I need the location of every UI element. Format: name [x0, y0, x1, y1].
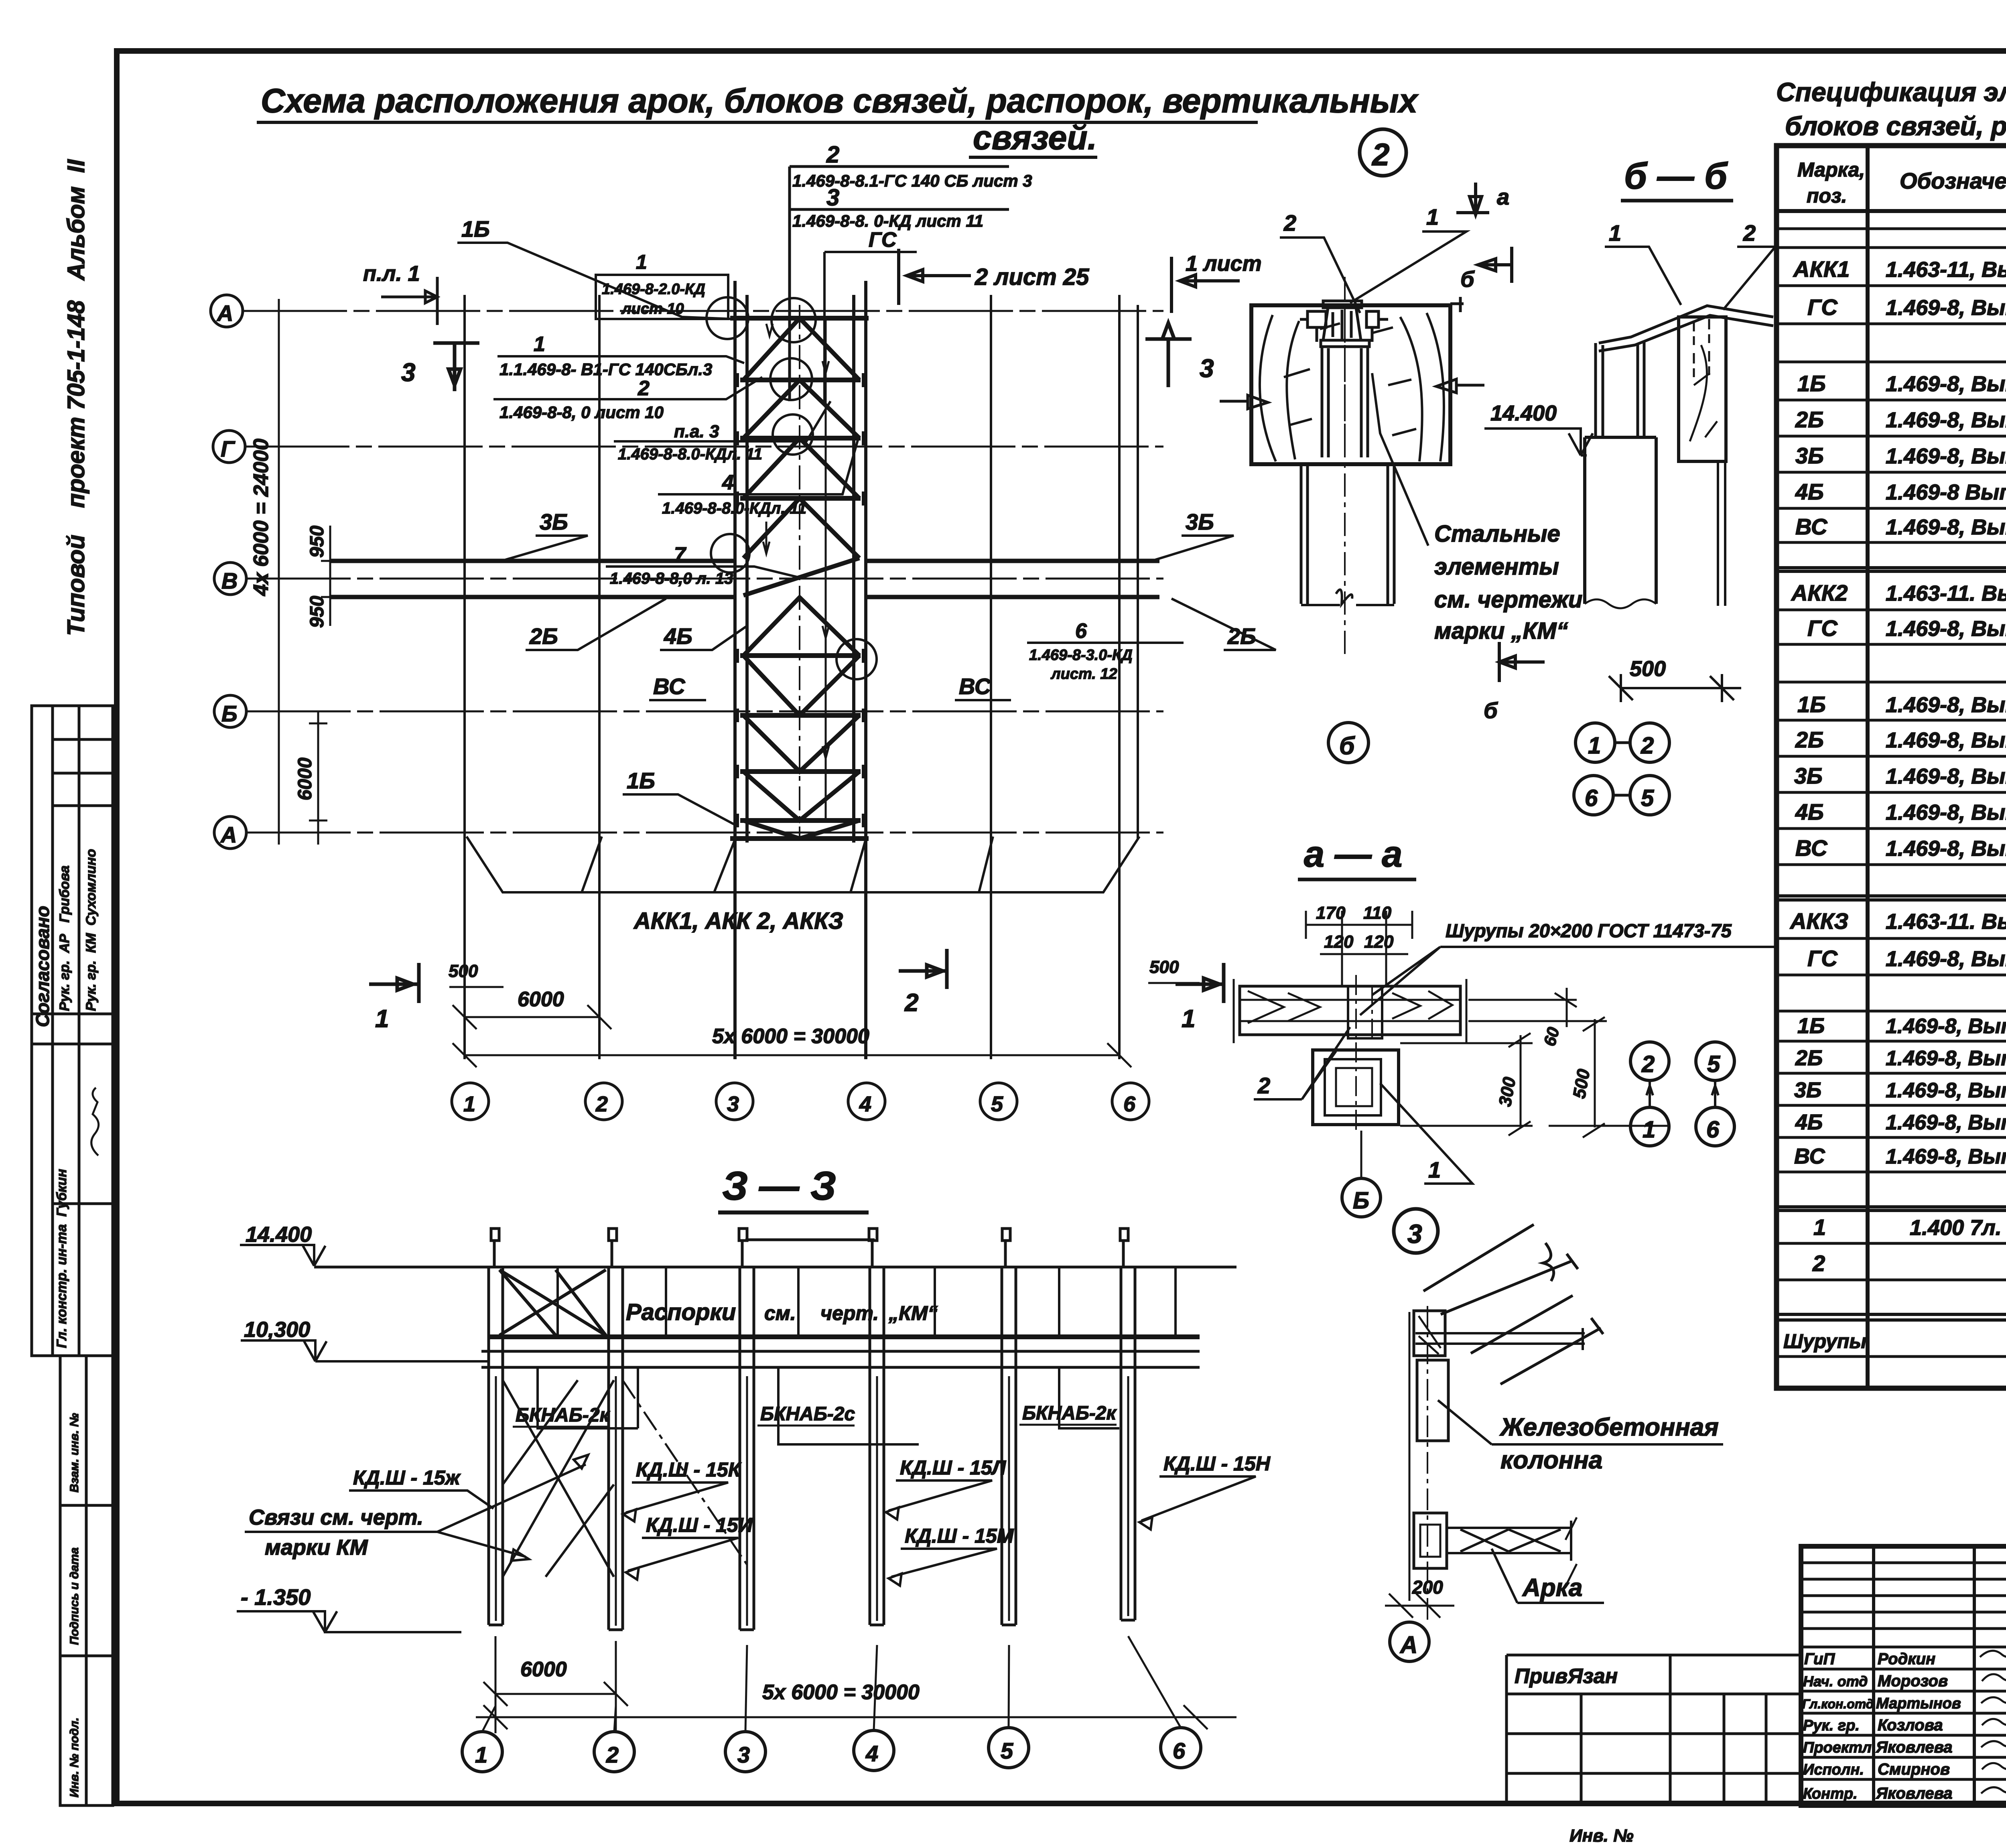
svg-text:КД.Ш - 15К: КД.Ш - 15К: [636, 1458, 742, 1481]
svg-text:1: 1: [375, 1005, 389, 1033]
svg-text:6: 6: [1123, 1092, 1136, 1116]
svg-text:1: 1: [1609, 220, 1621, 246]
svg-text:б: б: [1484, 698, 1498, 723]
svg-text:2: 2: [606, 1742, 619, 1767]
svg-text:см.: см.: [764, 1302, 796, 1324]
svg-text:Гл.кон.отд: Гл.кон.отд: [1802, 1697, 1874, 1711]
б-б plank lower continuation: [1718, 461, 1725, 606]
svg-text:п.а. 3: п.а. 3: [674, 422, 719, 441]
svg-text:ВС: ВС: [653, 674, 686, 699]
svg-text:ВС: ВС: [1794, 1144, 1825, 1168]
svg-text:Морозов: Морозов: [1878, 1672, 1948, 1690]
top posts above roof: [491, 1229, 1128, 1267]
svg-text:1.469-8-8. 0-КД лист 11: 1.469-8-8. 0-КД лист 11: [792, 211, 983, 230]
svg-text:Родкин: Родкин: [1878, 1650, 1935, 1668]
column body: [1417, 1360, 1448, 1441]
section marker 1 bottom left: [369, 963, 419, 1003]
svg-text:120: 120: [1364, 932, 1394, 952]
svg-text:б: б: [1339, 732, 1355, 760]
svg-text:3: 3: [1200, 354, 1214, 383]
svg-text:10,300: 10,300: [244, 1318, 310, 1342]
svg-text:лист. 12: лист. 12: [1050, 666, 1117, 682]
circle А bottom: [1390, 1622, 1429, 1661]
wood grain: [1260, 313, 1444, 461]
table column lines: [1868, 146, 2006, 1388]
svg-text:Спецификация элементов к сх: Спецификация элементов к схеме расположе…: [1776, 77, 2006, 107]
svg-text:3Б: 3Б: [540, 509, 568, 534]
svg-text:1: 1: [463, 1092, 475, 1116]
roof band lines: [489, 1334, 1200, 1339]
б-б top strut: [1599, 306, 1773, 351]
svg-text:1.469-8, Вып. 1: 1.469-8, Вып. 1: [1886, 728, 2006, 752]
axis line А top: [243, 310, 1163, 312]
svg-text:1 лист: 1 лист: [1186, 252, 1262, 276]
svg-text:1.469-8, Вып. 1: 1.469-8, Вып. 1: [1886, 617, 2006, 641]
svg-text:4: 4: [859, 1092, 871, 1116]
truss diagonals lower (inverted): [743, 656, 859, 839]
svg-text:1Б: 1Б: [461, 216, 490, 242]
column assembly top block: [1414, 1311, 1445, 1356]
svg-text:3Б: 3Б: [1794, 1078, 1821, 1102]
svg-text:2: 2: [1371, 137, 1389, 172]
svg-text:Яковлева: Яковлева: [1876, 1785, 1953, 1802]
svg-text:марки „КМ“: марки „КМ“: [1434, 618, 1568, 644]
svg-text:марки КМ: марки КМ: [265, 1535, 368, 1560]
svg-text:7: 7: [674, 543, 686, 567]
left soglasovano table: [32, 706, 113, 1356]
svg-text:6000: 6000: [520, 1658, 567, 1681]
svg-text:1.469-8, Вып. 1: 1.469-8, Вып. 1: [1886, 515, 2006, 539]
svg-text:Стальные: Стальные: [1434, 521, 1560, 547]
lower block: [1414, 1513, 1447, 1568]
column line 3 (truss left chord, doubled): [735, 281, 747, 1059]
svg-text:Гл. констр. ин-та Губкин: Гл. констр. ин-та Губкин: [54, 1169, 69, 1348]
arch span outline bottom: [467, 837, 1139, 892]
svg-text:Яковлева: Яковлева: [1876, 1738, 1953, 1756]
а-а beam: [1240, 986, 1460, 1035]
svg-text:4: 4: [865, 1741, 878, 1766]
vertical overall dim line 4x6000=24000: [271, 299, 287, 845]
svg-text:2: 2: [595, 1092, 608, 1116]
svg-text:А: А: [220, 822, 237, 847]
svg-text:поз.: поз.: [1807, 185, 1847, 207]
svg-text:Типовой проект 705-1-148: Типовой проект 705-1-148 Альбом II: [63, 159, 89, 636]
svg-text:колонна: колонна: [1500, 1446, 1602, 1474]
svg-text:3: 3: [737, 1742, 750, 1767]
svg-text:2: 2: [638, 377, 650, 400]
signature table verticals: [1874, 1546, 2006, 1805]
svg-text:3Б: 3Б: [1186, 509, 1214, 534]
section marker а (top): [1456, 183, 1489, 215]
svg-text:3: 3: [401, 358, 416, 387]
middle level line: [315, 1360, 489, 1363]
column line 1: [463, 295, 466, 1059]
svg-text:„КМ“: „КМ“: [888, 1302, 938, 1324]
svg-text:А: А: [216, 301, 233, 326]
б-б column upper: [1596, 341, 1644, 437]
svg-text:950: 950: [307, 596, 328, 628]
column line 6: [1119, 295, 1138, 1059]
svg-text:1.469-8, Вып. 1: 1.469-8, Вып. 1: [1886, 837, 2006, 861]
svg-text:лист 10: лист 10: [621, 301, 684, 317]
svg-text:АКК2: АКК2: [1791, 580, 1848, 605]
svg-text:БКНАБ-2к: БКНАБ-2к: [516, 1405, 610, 1426]
svg-text:950: 950: [307, 526, 328, 558]
column axis dash-dot: [1427, 1306, 1428, 1622]
detail2 side arrows: [1220, 379, 1484, 409]
svg-text:1.463-11. Вып. 1: 1.463-11. Вып. 1: [1886, 910, 2006, 934]
leader lines to circles: [482, 1636, 1181, 1732]
truss diagonals upper (chevrons): [743, 318, 859, 656]
detail2 wood beam: [1251, 305, 1450, 464]
svg-text:1: 1: [1426, 204, 1439, 229]
svg-text:Проектл: Проектл: [1803, 1739, 1872, 1756]
group separator double lines: [1777, 568, 2006, 1320]
а-а bolt centre: [1356, 975, 1372, 1131]
svg-text:1.469-8, Вып. 1: 1.469-8, Вып. 1: [1886, 947, 2006, 971]
svg-text:4Б: 4Б: [1795, 479, 1824, 504]
svg-text:2: 2: [904, 989, 918, 1017]
svg-text:1.469-8-2.0-КД: 1.469-8-2.0-КД: [602, 281, 705, 298]
title block outer: [1801, 1546, 2006, 1805]
axis circle А bottom: [214, 816, 246, 849]
а-а column below: [1313, 1050, 1399, 1125]
svg-text:КД.Ш - 15Н: КД.Ш - 15Н: [1163, 1452, 1271, 1475]
plan column circles 1-6: [452, 1083, 1149, 1120]
balloons pair 1-2: [1576, 723, 1669, 762]
svg-text:1.469-8-8.0-КДл. 11: 1.469-8-8.0-КДл. 11: [662, 500, 806, 517]
detail2 column below: [1301, 464, 1394, 604]
double tie rods to right: [1415, 1328, 1585, 1350]
svg-text:а — а: а — а: [1304, 834, 1402, 875]
column line 2: [598, 295, 601, 1059]
svg-text:2Б: 2Б: [529, 623, 558, 649]
svg-text:ГС: ГС: [869, 228, 897, 252]
svg-text:Инв. №: Инв. №: [1569, 1826, 1634, 1846]
x-brace in bay 1: [499, 1270, 606, 1335]
svg-text:Контр.: Контр.: [1803, 1785, 1858, 1802]
svg-text:Арка: Арка: [1522, 1574, 1582, 1602]
axis line Г: [245, 446, 1163, 448]
marker 2 лист 25 top: [899, 249, 971, 305]
axis circle Г: [213, 431, 245, 463]
table header bottom: [1777, 209, 2006, 213]
svg-text:14.400: 14.400: [246, 1223, 312, 1247]
circle б below detail2: [1328, 723, 1368, 763]
svg-text:1.469-8, Вып. 1: 1.469-8, Вып. 1: [1886, 1145, 2006, 1168]
roof tie bar over cols 3-4: [745, 1239, 875, 1241]
svg-text:КД.Ш - 15М: КД.Ш - 15М: [905, 1525, 1014, 1547]
svg-text:110: 110: [1363, 903, 1392, 923]
svg-text:Рук. гр.: Рук. гр.: [1803, 1717, 1860, 1734]
svg-text:1Б: 1Б: [627, 768, 655, 793]
svg-text:5: 5: [1641, 785, 1654, 811]
inner column shading lines: [496, 1376, 1128, 1626]
svg-text:1.469-8, Вып. 1: 1.469-8, Вып. 1: [1886, 408, 2006, 432]
svg-text:б: б: [1460, 266, 1475, 292]
svg-text:6: 6: [1706, 1117, 1720, 1143]
svg-text:связей.: связей.: [973, 119, 1097, 156]
axis circle В: [214, 563, 246, 595]
svg-text:6: 6: [1075, 619, 1087, 643]
svg-text:см. чертежи: см. чертежи: [1434, 587, 1582, 613]
svg-text:3: 3: [727, 1092, 739, 1116]
svg-text:Козлова: Козлова: [1878, 1716, 1943, 1734]
svg-text:2: 2: [1641, 1051, 1655, 1077]
svg-text:1.469-8, Вып. 1: 1.469-8, Вып. 1: [1886, 1111, 2006, 1134]
svg-text:Связи см. черт.: Связи см. черт.: [249, 1505, 423, 1529]
svg-text:элементы: элементы: [1434, 554, 1559, 580]
svg-text:1.463-11, Вып. 1: 1.463-11, Вып. 1: [1886, 258, 2006, 282]
svg-text:1.469-8, Вып. 1: 1.469-8, Вып. 1: [1886, 296, 2006, 320]
svg-text:1: 1: [475, 1742, 487, 1767]
svg-text:14.400: 14.400: [1490, 401, 1557, 425]
svg-text:а: а: [1497, 184, 1509, 209]
svg-text:З — З: З — З: [722, 1164, 836, 1208]
svg-text:б — б: б — б: [1624, 156, 1728, 197]
svg-text:3Б: 3Б: [1795, 443, 1824, 468]
svg-text:3Б: 3Б: [1794, 763, 1823, 788]
svg-text:2 лист 25: 2 лист 25: [975, 264, 1089, 290]
dash-dot diagonal bay2-3: [623, 1380, 747, 1565]
svg-text:ВС: ВС: [1795, 514, 1828, 539]
svg-text:1.469-8, Вып. 1: 1.469-8, Вып. 1: [1886, 1015, 2006, 1038]
svg-text:ГС: ГС: [1807, 294, 1838, 320]
б-б plank right: [1679, 317, 1726, 461]
svg-text:1.469-8, Вып. 1: 1.469-8, Вып. 1: [1886, 372, 2006, 396]
svg-text:6000: 6000: [294, 757, 316, 800]
detail2 bolt connector: [1323, 301, 1362, 340]
svg-text:1Б: 1Б: [1797, 1014, 1825, 1038]
svg-text:6000: 6000: [518, 988, 564, 1011]
svg-text:АКК1: АКК1: [1793, 256, 1850, 282]
привязан table: [1507, 1655, 1801, 1805]
svg-text:4Б: 4Б: [664, 623, 692, 649]
svg-text:1.400 7л. 7: 1.400 7л. 7: [1910, 1216, 2006, 1240]
table row lines: [1777, 229, 2006, 1357]
svg-text:1: 1: [1428, 1157, 1441, 1182]
б-б column lower: [1585, 437, 1656, 604]
svg-text:5: 5: [1707, 1051, 1720, 1077]
signature table rows: [1801, 1563, 2006, 1779]
svg-text:Мартынов: Мартынов: [1876, 1695, 1961, 1712]
svg-text:120: 120: [1324, 932, 1354, 952]
detail2 inner post through beam: [1322, 347, 1368, 457]
svg-text:БКНАБ-2с: БКНАБ-2с: [760, 1403, 855, 1425]
распорка bar 2Б lower: [331, 595, 1159, 599]
svg-text:ВС: ВС: [1795, 835, 1828, 861]
section marker 1 bottom right: [1176, 963, 1224, 1003]
columns of section 3-3: [489, 1267, 1135, 1630]
truss centre axis: [799, 305, 800, 839]
axis line Б: [246, 711, 1163, 713]
arch diagonals: [1423, 1225, 1578, 1314]
svg-text:ГС: ГС: [1807, 615, 1838, 641]
svg-text:2: 2: [1257, 1073, 1270, 1098]
svg-text:1.469-8, Вып. 1: 1.469-8, Вып. 1: [1886, 1047, 2006, 1070]
svg-text:- 1.350: - 1.350: [241, 1584, 311, 1610]
svg-text:5х 6000 = 30000: 5х 6000 = 30000: [762, 1681, 920, 1704]
svg-text:4: 4: [722, 471, 734, 494]
svg-text:Железобетонная: Железобетонная: [1499, 1413, 1719, 1441]
svg-text:1.469-8, Вып. 1: 1.469-8, Вып. 1: [1886, 444, 2006, 468]
svg-text:Исполн.: Исполн.: [1803, 1761, 1864, 1778]
column line 5: [990, 295, 992, 1059]
svg-text:1Б: 1Б: [1797, 692, 1826, 717]
circle Б below а-а: [1342, 1178, 1381, 1217]
svg-text:КД.Ш - 15Л: КД.Ш - 15Л: [900, 1456, 1007, 1479]
svg-text:1.1.469-8- В1-ГС 140СБл.3: 1.1.469-8- В1-ГС 140СБл.3: [499, 360, 712, 379]
б marker bottom: [1499, 642, 1545, 682]
svg-text:3: 3: [1407, 1219, 1422, 1249]
svg-text:3: 3: [826, 185, 839, 211]
svg-text:Г: Г: [221, 436, 236, 461]
diagonal braces bay1-2: [503, 1380, 614, 1577]
svg-text:2: 2: [1812, 1251, 1825, 1276]
arka beam right with cross hatch: [1447, 1521, 1571, 1561]
svg-text:БКНАБ-2к: БКНАБ-2к: [1022, 1403, 1117, 1424]
axis circle Б: [214, 695, 246, 727]
svg-text:Б: Б: [221, 701, 238, 726]
svg-text:ГиП: ГиП: [1804, 1650, 1835, 1668]
svg-text:ГС: ГС: [1807, 946, 1838, 971]
section marker б (top): [1478, 247, 1512, 283]
roof top line: [314, 1266, 1236, 1269]
axis line В: [246, 578, 1163, 580]
svg-text:1.469-8, Вып. 1: 1.469-8, Вып. 1: [1886, 693, 2006, 717]
svg-text:5х 6000 = 30000: 5х 6000 = 30000: [712, 1025, 869, 1048]
svg-text:Смирнов: Смирнов: [1878, 1761, 1950, 1778]
svg-text:Инв. № подл.: Инв. № подл.: [68, 1718, 81, 1797]
svg-text:Нач. отд: Нач. отд: [1803, 1673, 1868, 1690]
распорка bar 3Б upper: [331, 559, 1159, 563]
dim 950 950: [321, 526, 339, 626]
svg-text:ВС: ВС: [959, 674, 991, 699]
svg-text:5: 5: [991, 1092, 1003, 1116]
svg-text:1.469-8-8.0-КДл. 11: 1.469-8-8.0-КДл. 11: [618, 445, 762, 463]
table outer border: [1777, 146, 2006, 1388]
svg-text:п.л. 1: п.л. 1: [363, 262, 420, 286]
svg-text:Рук. гр. АР Грибова: Рук. гр. АР Грибова: [57, 865, 72, 1011]
svg-text:4х 6000 = 24000: 4х 6000 = 24000: [250, 439, 273, 596]
circle 3: [1394, 1209, 1438, 1253]
parapet verticals between roof lines: [558, 1267, 1176, 1337]
svg-text:Распорки: Распорки: [626, 1299, 736, 1325]
svg-text:2Б: 2Б: [1795, 407, 1824, 432]
svg-text:Марка,: Марка,: [1797, 158, 1865, 181]
svg-text:500: 500: [1630, 657, 1666, 681]
svg-text:АККЗ: АККЗ: [1789, 908, 1848, 934]
svg-text:4Б: 4Б: [1795, 799, 1824, 824]
svg-text:Рук. гр. КМ Сухомлино: Рук. гр. КМ Сухомлино: [83, 849, 99, 1011]
svg-text:500: 500: [449, 961, 478, 981]
dim 6000 Б-А: [309, 711, 327, 845]
svg-text:Согласовано: Согласовано: [32, 906, 53, 1027]
sec3-3 circles 1-6: [462, 1728, 1201, 1772]
svg-text:1: 1: [636, 251, 647, 273]
marker 1 лист top right: [1172, 257, 1240, 313]
svg-text:Обозначение: Обозначение: [1900, 168, 2006, 193]
svg-text:6: 6: [1173, 1738, 1186, 1763]
svg-text:КД.Ш - 15И: КД.Ш - 15И: [646, 1514, 753, 1536]
svg-text:блоков связей, распорок, Ве: блоков связей, распорок, Вертикальных св…: [1785, 111, 2006, 141]
svg-text:1.469-8, Вып. 1: 1.469-8, Вып. 1: [1886, 764, 2006, 788]
svg-text:2Б: 2Б: [1795, 727, 1824, 752]
left bottom stamp boxes: [60, 1356, 113, 1805]
axis line А bottom: [246, 832, 1163, 834]
svg-text:Взам. инв. №: Взам. инв. №: [68, 1413, 81, 1493]
svg-text:1: 1: [1643, 1117, 1655, 1143]
svg-text:Шурупы: Шурупы: [1783, 1330, 1866, 1352]
detail 2 balloon: [1360, 129, 1406, 176]
detail2 bearing plate: [1321, 340, 1369, 347]
svg-text:1: 1: [1588, 733, 1601, 759]
svg-text:1.469-8, Вып. 1: 1.469-8, Вып. 1: [1886, 1079, 2006, 1102]
svg-text:А: А: [1399, 1631, 1417, 1658]
svg-text:ПривЯзан: ПривЯзан: [1515, 1665, 1618, 1688]
svg-text:1Б: 1Б: [1797, 371, 1826, 396]
svg-text:2: 2: [1283, 210, 1296, 236]
svg-text:1.469-8-8,0 л. 13: 1.469-8-8,0 л. 13: [610, 570, 733, 587]
а-а balloons 2,5 / 1,6: [1630, 1042, 1734, 1146]
svg-text:1.469-8-8, 0 лист 10: 1.469-8-8, 0 лист 10: [499, 403, 664, 422]
balloons pair 6-5: [1574, 776, 1669, 815]
svg-text:1.469-8, Вып. 1: 1.469-8, Вып. 1: [1886, 800, 2006, 824]
axis circle А top: [211, 295, 243, 327]
svg-text:1.463-11. Вып. 1: 1.463-11. Вып. 1: [1886, 581, 2006, 605]
svg-text:5: 5: [1001, 1738, 1013, 1763]
svg-text:2: 2: [1641, 733, 1654, 759]
svg-text:1.469-8-3.0-КД: 1.469-8-3.0-КД: [1029, 647, 1133, 664]
svg-text:2: 2: [1743, 220, 1756, 246]
svg-text:Схема расположения арок, блоко: Схема расположения арок, блоков связей, …: [261, 82, 1419, 120]
svg-text:1.469-8 Вып. 1: 1.469-8 Вып. 1: [1886, 480, 2006, 504]
detail2 centre axis: [1344, 277, 1346, 658]
truss joint balloons: [707, 297, 877, 679]
svg-text:Шурупы 20×200 ГОСТ 11473-75: Шурупы 20×200 ГОСТ 11473-75: [1446, 920, 1732, 941]
column line 4 (truss right chord, doubled): [854, 281, 866, 1059]
truss web: rungs: [730, 318, 869, 839]
signature squiggles: [1980, 1650, 2006, 1793]
подвесы under roof band: [538, 1367, 1119, 1444]
section marker 2 bottom mid: [899, 949, 947, 989]
svg-text:Б: Б: [1353, 1188, 1369, 1214]
svg-text:1: 1: [1182, 1005, 1195, 1033]
detail2 side plates: [1300, 311, 1388, 342]
svg-text:500: 500: [1149, 957, 1179, 977]
svg-text:1: 1: [534, 333, 545, 356]
svg-text:6: 6: [1585, 785, 1598, 811]
svg-text:КД.Ш - 15ж: КД.Ш - 15ж: [353, 1466, 461, 1489]
svg-text:1: 1: [1813, 1214, 1826, 1240]
svg-text:2Б: 2Б: [1795, 1046, 1823, 1070]
svg-text:АКК1, АКК 2, АККЗ: АКК1, АКК 2, АККЗ: [633, 908, 843, 934]
svg-text:4Б: 4Б: [1795, 1110, 1823, 1134]
svg-text:Подпись и дата: Подпись и дата: [68, 1547, 81, 1645]
svg-text:В: В: [221, 568, 238, 593]
svg-text:2: 2: [826, 142, 839, 168]
